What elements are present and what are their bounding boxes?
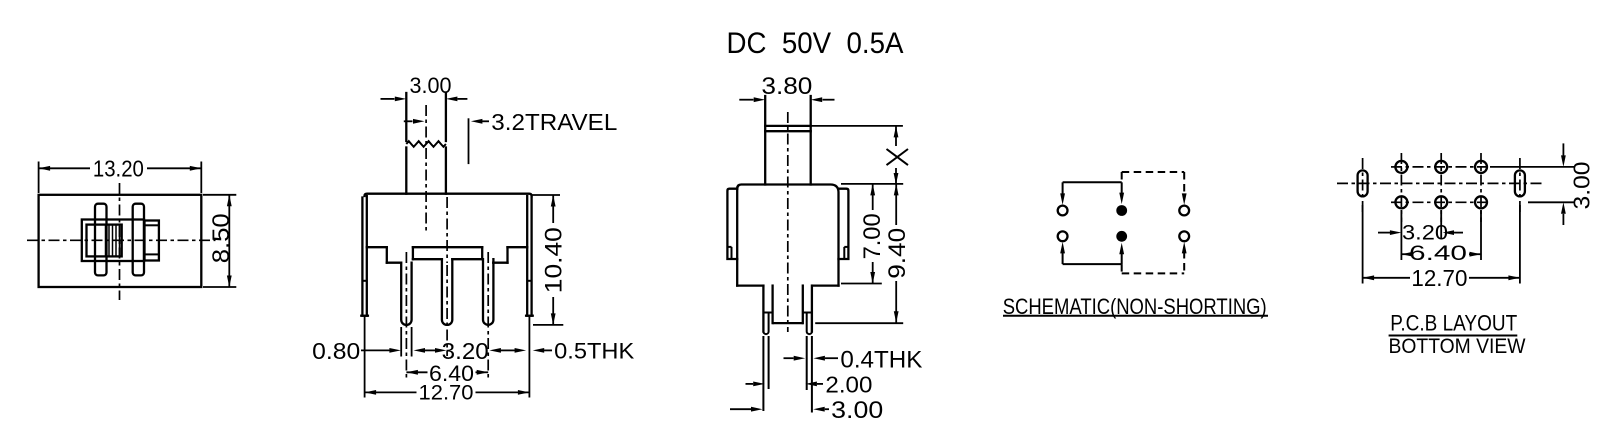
knob top extension line for X xyxy=(811,125,903,127)
schematic terminal bottom-left xyxy=(1058,231,1068,241)
0.4THK arrows xyxy=(784,357,794,359)
right tab shoulder tick xyxy=(527,280,531,282)
right tab bottom xyxy=(526,315,533,317)
dimension letter X xyxy=(887,149,909,165)
dimension 13.20 extension lines xyxy=(38,162,40,194)
knob left tab xyxy=(95,204,107,276)
pcb slot extension lines xyxy=(1362,205,1364,284)
pin 3 centerline xyxy=(487,252,489,378)
knob inner grip frame xyxy=(87,225,122,257)
terminal pin 3 (front) xyxy=(483,259,493,325)
front knob left edge with break xyxy=(405,93,407,141)
knob break zigzag xyxy=(406,141,446,147)
svg-text:P.C.B LAYOUT: P.C.B LAYOUT xyxy=(1390,311,1517,336)
side right pin inner edge xyxy=(802,286,804,324)
schematic common pole contact bottom (closed) xyxy=(1116,231,1127,242)
pcb hole 6 xyxy=(1475,196,1487,208)
front body centerline xyxy=(446,197,448,263)
schematic terminal bottom-right xyxy=(1179,231,1189,241)
side left pin inner edge xyxy=(771,286,773,324)
schematic terminal top-left xyxy=(1058,206,1068,216)
pcb hole column centerline 2 xyxy=(1440,153,1442,222)
pcb hole 2 xyxy=(1435,161,1447,173)
left tab shoulder tick xyxy=(362,280,366,282)
side left pin shoulder tick xyxy=(763,312,772,314)
svg-text:9.40: 9.40 xyxy=(884,228,911,279)
dimension 8.50 extension lines xyxy=(203,194,236,196)
knob right end block xyxy=(145,221,159,261)
dimension 10.40 line and arrows xyxy=(552,195,554,223)
pcb hole row centerline bottom xyxy=(1391,201,1491,203)
front body right inner wall xyxy=(526,196,528,316)
dimension 6.40 line and arrows xyxy=(406,371,427,373)
front body bottom profile right step xyxy=(508,246,528,248)
svg-text:0.80: 0.80 xyxy=(312,338,360,364)
dimension 7.00 line and arrows xyxy=(872,184,874,210)
dimension 3.20 right arrow and 0.5THK arrows xyxy=(489,348,501,353)
svg-text:12.70: 12.70 xyxy=(1411,265,1467,291)
schematic label underline xyxy=(1003,315,1268,317)
side knob top cap xyxy=(765,125,811,127)
svg-text:3.00: 3.00 xyxy=(1569,162,1595,210)
schematic solid link bottom xyxy=(1063,263,1122,265)
knob centerline (front) xyxy=(425,105,427,232)
svg-text:3.2TRAVEL: 3.2TRAVEL xyxy=(491,109,617,135)
dimension 9.40 line and arrows xyxy=(895,184,897,225)
pcb row extension line bottom xyxy=(1528,201,1574,203)
pcb hole 1 xyxy=(1395,161,1407,173)
svg-text:7.00: 7.00 xyxy=(859,213,886,259)
dimension 13.20 line and arrows xyxy=(39,167,90,169)
knob main block (top view) xyxy=(82,220,144,262)
9.40 bottom extension line xyxy=(815,322,903,324)
front body top edge xyxy=(365,194,532,197)
side right mounting ear xyxy=(839,189,849,259)
side right pin shoulder tick xyxy=(803,312,812,314)
pcb extension lines below holes xyxy=(1400,210,1402,260)
svg-text:0.4THK: 0.4THK xyxy=(840,347,922,374)
pcb row extension line top xyxy=(1490,166,1574,168)
side body bottom edge segments xyxy=(737,284,763,286)
travel arrow to centerline xyxy=(404,120,413,122)
side right pin rounded foot xyxy=(807,314,812,335)
side left pin rounded foot xyxy=(763,314,768,335)
svg-text:8.50: 8.50 xyxy=(208,213,235,263)
pcb hole 4 xyxy=(1395,196,1407,208)
knob grip serration lines xyxy=(105,225,107,257)
svg-text:6.40: 6.40 xyxy=(1409,242,1467,265)
dimension X line and arrows xyxy=(895,126,897,146)
front body bottom profile left step xyxy=(367,246,387,248)
body top extension line xyxy=(841,183,903,185)
side knob left edge xyxy=(764,96,766,185)
knob right end inner lines xyxy=(145,224,159,226)
svg-text:DC 50V 0.5A: DC 50V 0.5A xyxy=(727,27,904,60)
schematic dashed alternate path top xyxy=(1121,172,1123,182)
front body left outer wall xyxy=(361,198,363,316)
front body left inner wall xyxy=(366,196,368,316)
pin 1 centerline xyxy=(405,252,407,378)
top view horizontal centerline xyxy=(27,239,216,241)
dimension 3.00 line and arrows xyxy=(730,408,751,410)
top view body outline xyxy=(39,195,202,287)
top view vertical centerline xyxy=(119,183,121,300)
dimension 0.80 line and arrows xyxy=(361,349,390,351)
svg-text:3.00: 3.00 xyxy=(410,73,452,98)
dimension 3.00 knob width - arrows xyxy=(381,98,395,100)
svg-text:0.5THK: 0.5THK xyxy=(554,339,634,364)
dimension 3.80 arrows xyxy=(739,99,753,101)
svg-text:BOTTOM VIEW: BOTTOM VIEW xyxy=(1389,335,1526,358)
side right pin lead below xyxy=(806,336,808,390)
pcb hole column centerline 3 xyxy=(1480,153,1482,222)
front knob right edge with break xyxy=(445,93,447,141)
side left mounting ear xyxy=(727,189,737,259)
svg-text:12.70: 12.70 xyxy=(419,382,474,405)
pcb dimension 3.20 arrows xyxy=(1378,232,1390,234)
schematic common pole contact top (closed) xyxy=(1116,205,1127,216)
knob right tab xyxy=(133,204,144,276)
pcb left slot centerline xyxy=(1362,158,1364,213)
pin edge extension lines for 0.80 xyxy=(400,327,402,357)
svg-text:13.20: 13.20 xyxy=(93,156,144,182)
pin 2 centerline xyxy=(446,265,448,356)
pcb hole 3 xyxy=(1475,161,1487,173)
svg-text:3.00: 3.00 xyxy=(831,397,883,424)
pcb dimension 6.40 line and arrows xyxy=(1401,253,1407,255)
side right pin outer edge xyxy=(811,286,813,332)
dimension 2.00 line and arrows xyxy=(746,383,754,385)
front body center band xyxy=(413,246,482,248)
pcb left slot xyxy=(1358,170,1368,196)
dimension 12.70 line and arrows (front) xyxy=(365,391,417,393)
svg-text:2.00: 2.00 xyxy=(825,371,872,397)
pcb right slot xyxy=(1515,170,1525,196)
pcb right slot centerline xyxy=(1519,158,1521,213)
3.2TRAVEL leader arrow xyxy=(471,119,483,124)
side knob right edge xyxy=(810,96,812,185)
dimension 8.50 line and arrows xyxy=(228,195,230,287)
side recessed bottom between pins xyxy=(774,322,803,324)
schematic dashed alternate path bottom xyxy=(1121,264,1123,273)
left tab bottom xyxy=(361,315,368,317)
pcb hole 5 xyxy=(1435,196,1447,208)
tab extension line right xyxy=(528,317,530,398)
side left pin lead below xyxy=(762,336,764,411)
schematic terminal top-right xyxy=(1179,206,1189,216)
pcb label underline xyxy=(1389,335,1518,337)
schematic solid link top xyxy=(1063,181,1122,183)
pcb dimension 3.00 arrows xyxy=(1562,143,1564,155)
tab extension line left xyxy=(364,317,366,398)
side view centerline xyxy=(787,112,789,332)
svg-text:10.40: 10.40 xyxy=(540,227,567,293)
side body outline xyxy=(737,185,838,286)
svg-text:3.80: 3.80 xyxy=(761,73,812,100)
7.00 bottom extension line xyxy=(841,283,882,285)
dimension 10.40 extension lines xyxy=(532,194,560,196)
side left pin outer edge xyxy=(762,286,764,332)
terminal pin 1 (front) xyxy=(401,263,411,325)
travel extent line xyxy=(468,118,470,164)
pcb dimension 12.70 line and arrows xyxy=(1363,277,1410,279)
pcb hole column centerline 1 xyxy=(1400,153,1402,222)
front body right outer wall xyxy=(530,198,532,316)
terminal pin 2 (front) xyxy=(442,259,452,325)
pcb hole row centerline top xyxy=(1391,166,1491,168)
pcb main horizontal centerline xyxy=(1337,182,1544,184)
